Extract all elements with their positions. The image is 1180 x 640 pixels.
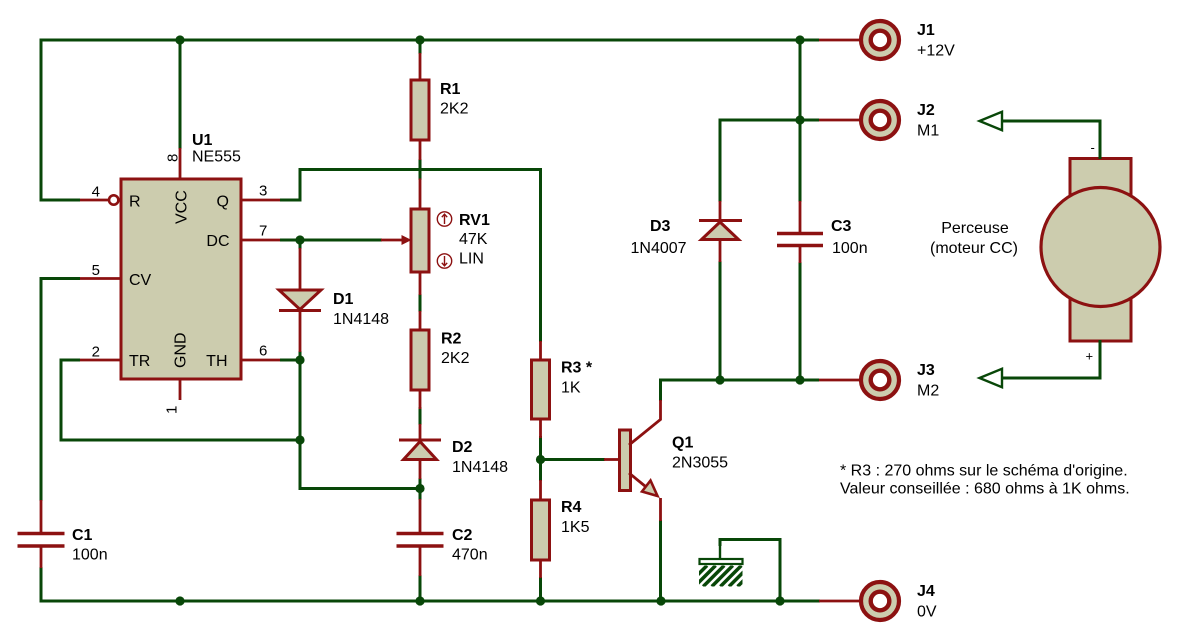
wire motor bottom to M2 arrow (1001, 340, 1100, 378)
wire D2 to C2 node (419, 478, 422, 500)
transistor Q1 base lead (604, 458, 620, 461)
resistor R4 bottom lead (539, 560, 542, 578)
junction node TH / D1 (295, 355, 304, 364)
U1 pin 4 R stub (80, 199, 109, 202)
resistor R2 body (411, 330, 429, 390)
motor bottom terminal block (1070, 296, 1131, 341)
svg-text:R4: R4 (561, 499, 582, 516)
svg-text:2K2: 2K2 (441, 350, 470, 367)
wire R1 to RV1 (419, 159, 422, 180)
junction node DC / D1 / wiper (295, 235, 304, 244)
ground symbol (686, 559, 759, 587)
wire DC to pot wiper (280, 239, 382, 242)
svg-text:Valeur conseillée : 680 ohms à: Valeur conseillée : 680 ohms à 1K ohms. (840, 481, 1130, 498)
wire Q1 emitter to ground rail (659, 520, 662, 601)
wire C2 to ground rail (419, 575, 422, 601)
wire VCC pin-8 riser (179, 40, 182, 149)
svg-text:D2: D2 (452, 439, 473, 456)
wire TH link (280, 359, 300, 362)
resistor R3 bottom lead (539, 419, 542, 438)
wire motor top to M1 arrow (1001, 121, 1100, 159)
wire R3 to base node (539, 436, 542, 481)
svg-text:D1: D1 (333, 291, 354, 308)
capacitor C2 top lead (419, 499, 422, 533)
wire D1 bottom to D2/C2 node (300, 351, 420, 489)
capacitor C1 plates (18, 532, 65, 535)
junction node emitter / 0V rail (656, 596, 665, 605)
svg-text:C1: C1 (72, 527, 93, 544)
connector J3 M2 stub (819, 379, 860, 382)
junction node GND pin / 0V rail (175, 596, 184, 605)
svg-text:R1: R1 (440, 81, 461, 98)
resistor R1 top lead (419, 53, 422, 80)
junction node C2 / 0V rail (415, 596, 424, 605)
svg-text:R: R (129, 194, 141, 211)
svg-text:100n: 100n (832, 240, 868, 257)
svg-text:Perceuse: Perceuse (941, 220, 1009, 237)
svg-text:3: 3 (259, 183, 267, 200)
wire CV branch to C1 (41, 279, 80, 502)
U1 pin 2 TR stub (80, 359, 121, 362)
capacitor C3 bottom lead (799, 246, 802, 263)
U1 pin 1 GND stub (179, 379, 182, 400)
diode D1 bottom lead (299, 311, 302, 353)
svg-text:1: 1 (164, 406, 181, 414)
svg-text:1N4007: 1N4007 (631, 240, 687, 257)
svg-text:* R3 : 270 ohms sur le schéma: * R3 : 270 ohms sur le schéma d'origine. (840, 463, 1128, 480)
svg-text:4: 4 (92, 184, 100, 201)
svg-text:U1: U1 (192, 132, 213, 149)
junction node TR / D1 branch (295, 435, 304, 444)
svg-text:470n: 470n (452, 547, 488, 564)
svg-text:(moteur CC): (moteur CC) (930, 240, 1018, 257)
transistor Q1 collector (629, 400, 661, 445)
svg-text:+: + (1086, 349, 1094, 364)
svg-text:R2: R2 (441, 331, 462, 348)
diode D3 triangle (702, 222, 739, 240)
junction node C3 / M1 rail (795, 115, 804, 124)
wire 0V bottom rail (41, 567, 820, 601)
capacitor C2 bottom lead (419, 547, 422, 576)
arrow M1 pointer (980, 112, 1003, 130)
wire base node to Q1 (541, 458, 606, 461)
U1 pin 5 CV stub (80, 277, 121, 280)
svg-text:1N4148: 1N4148 (452, 459, 508, 476)
U1 pin 4 inversion circle (109, 195, 118, 204)
svg-text:VCC: VCC (174, 190, 191, 224)
svg-text:Q1: Q1 (672, 435, 693, 452)
svg-text:RV1: RV1 (459, 212, 490, 229)
resistor R4 body (532, 500, 550, 560)
svg-text:2: 2 (92, 344, 100, 361)
svg-text:M2: M2 (917, 383, 939, 400)
wire Q output to R3 (280, 170, 541, 343)
svg-text:1K: 1K (561, 380, 581, 397)
diode D3 cathode bar (699, 219, 742, 222)
svg-text:7: 7 (259, 223, 267, 240)
wire C3 bottom link (799, 262, 802, 380)
wire R2 to D2 (419, 407, 422, 425)
wire C3 top branch from +12V (799, 40, 802, 202)
motor top terminal block (1070, 159, 1131, 204)
wire RV1 to R2 (419, 294, 422, 312)
wire R4 to ground rail (539, 577, 542, 601)
diode D1 cathode bar (279, 309, 321, 312)
junction node VCC pin 8 / top rail (175, 35, 184, 44)
potentiometer RV1 wiper arrow (381, 239, 403, 242)
resistor R1 bottom lead (419, 140, 422, 160)
wire left branch to reset pin (41, 40, 80, 200)
svg-text:+12V: +12V (917, 43, 955, 60)
resistor R3 top lead (539, 341, 542, 361)
connector J4 0V pad (861, 582, 899, 620)
wire +12V top rail (40, 39, 820, 42)
connector J1 +12V pad (861, 21, 899, 59)
svg-text:-: - (1091, 140, 1095, 155)
U1 pin 8 VCC stub (179, 148, 182, 179)
capacitor C3 plates (777, 232, 823, 235)
svg-text:GND: GND (173, 332, 190, 368)
junction node ground branch / 0V rail (775, 596, 784, 605)
capacitor C3 top lead (799, 201, 802, 234)
diode D1 triangle (279, 290, 321, 310)
transistor Q1 emitter (629, 473, 648, 489)
U1 pin 6 TH stub (241, 359, 280, 362)
wire D3 bottom link (719, 261, 722, 380)
svg-text:NE555: NE555 (192, 149, 241, 166)
svg-text:Q: Q (217, 194, 229, 211)
capacitor C2 plates (397, 532, 444, 535)
svg-text:CV: CV (129, 272, 152, 289)
svg-text:8: 8 (165, 154, 182, 162)
diode D3 bottom lead (719, 240, 722, 263)
diode D3 top lead (719, 201, 722, 222)
potentiometer RV1 body (411, 209, 429, 272)
svg-text:J4: J4 (917, 583, 935, 600)
svg-text:C2: C2 (452, 527, 473, 544)
motor body circle (1041, 188, 1160, 307)
svg-text:5: 5 (92, 262, 100, 279)
capacitor C1 bottom lead (40, 547, 43, 568)
wire ground-symbol branch (720, 540, 780, 602)
svg-text:2K2: 2K2 (440, 101, 469, 118)
svg-text:M1: M1 (917, 123, 939, 140)
wire R1 top lead link (419, 40, 422, 54)
resistor R3 body (532, 360, 550, 419)
junction node R1 / top rail (415, 35, 424, 44)
diode D2 cathode bar (399, 439, 441, 442)
diode D2 bottom lead (419, 460, 422, 480)
junction node R4 / 0V rail (536, 596, 545, 605)
svg-text:J2: J2 (917, 102, 935, 119)
junction node C3 branch / top rail (795, 35, 804, 44)
svg-text:TR: TR (129, 353, 150, 370)
resistor R2 top lead (419, 311, 422, 330)
connector J2 M1 stub (819, 119, 860, 122)
connector J1 +12V stub (819, 39, 860, 42)
wire D3 top to M1 rail (720, 120, 819, 202)
RV1 down-arrow annotation (437, 254, 451, 268)
connector J3 M2 pad (861, 361, 899, 399)
wire TR branch (61, 360, 300, 440)
svg-text:TH: TH (206, 353, 227, 370)
svg-text:1K5: 1K5 (561, 519, 590, 536)
U1 pin 3 Q stub (241, 199, 280, 202)
connector J4 0V stub (819, 600, 860, 603)
svg-text:C3: C3 (831, 218, 852, 235)
svg-text:DC: DC (206, 233, 229, 250)
diode D2 triangle (404, 442, 437, 460)
svg-text:100n: 100n (72, 547, 108, 564)
RV1 up-arrow annotation (437, 212, 451, 226)
svg-text:J1: J1 (917, 22, 935, 39)
diode D1 top lead (299, 248, 302, 291)
resistor R1 body (411, 80, 429, 140)
transistor Q1 emitter arrowhead (642, 481, 658, 497)
junction node C3 / M2 rail (795, 375, 804, 384)
arrow M2 pointer (980, 369, 1003, 387)
transistor Q1 base bar (620, 430, 631, 491)
svg-text:J3: J3 (917, 362, 935, 379)
resistor R2 bottom lead (419, 390, 422, 409)
op-amp U1 NE555 body (121, 179, 241, 379)
wire D1 top link (299, 240, 302, 249)
resistor R4 top lead (539, 480, 542, 500)
transistor Q1 emitter lead (659, 498, 662, 521)
junction node D2 / C2 (415, 484, 424, 493)
ground symbol stem (719, 546, 721, 560)
svg-text:0V: 0V (917, 604, 937, 621)
svg-text:6: 6 (259, 343, 267, 360)
capacitor C1 top lead (40, 500, 43, 533)
svg-text:47K: 47K (459, 231, 488, 248)
potentiometer RV1 top lead (419, 179, 422, 210)
wire Q1 collector to M2 rail (661, 380, 820, 401)
svg-text:1N4148: 1N4148 (333, 311, 389, 328)
svg-text:R3 *: R3 * (561, 360, 593, 377)
junction node D3 / M2 rail (715, 375, 724, 384)
junction node R3 / R4 / base (536, 455, 545, 464)
connector J2 M1 pad (861, 101, 899, 139)
U1 pin 7 DC stub (241, 239, 280, 242)
svg-text:2N3055: 2N3055 (672, 455, 728, 472)
diode D2 top lead (419, 424, 422, 440)
potentiometer RV1 bottom lead (419, 272, 422, 295)
svg-text:LIN: LIN (459, 251, 484, 268)
svg-text:D3: D3 (650, 218, 671, 235)
